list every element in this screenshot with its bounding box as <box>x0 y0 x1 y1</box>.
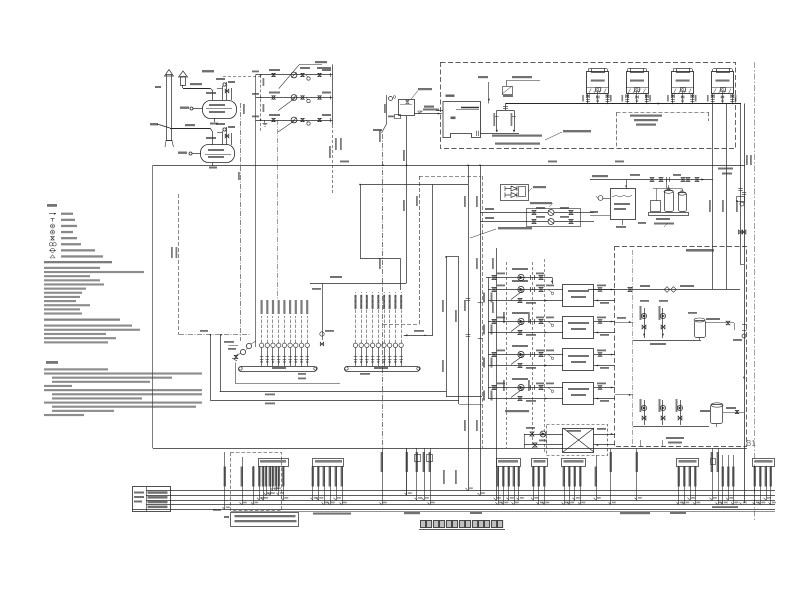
svg-text:B1: B1 <box>746 439 756 448</box>
